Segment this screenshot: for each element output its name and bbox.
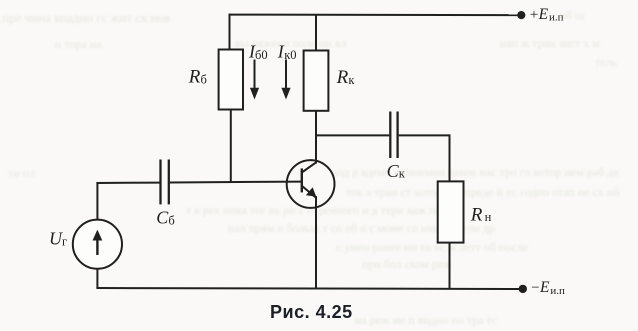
wire collector lead from Rк down xyxy=(315,111,317,164)
wire bottom rail xyxy=(96,288,523,289)
svg-text:+: + xyxy=(530,7,538,23)
wire collector to Ск xyxy=(315,134,389,136)
svg-text:R: R xyxy=(470,204,483,225)
node dot +E xyxy=(517,11,525,19)
wire Rн bottom lead xyxy=(449,243,451,289)
resistor Rк xyxy=(304,51,329,111)
capacitor Cб plates xyxy=(159,160,161,205)
transistor VT circle xyxy=(287,160,335,208)
capacitor Ск plates xyxy=(389,112,391,159)
svg-text:б: б xyxy=(201,73,207,87)
faint page bleed-through text (decorative) xyxy=(2,10,170,26)
svg-text:б: б xyxy=(168,213,174,227)
resistor Rн xyxy=(438,181,464,242)
svg-text:и.п: и.п xyxy=(549,12,564,24)
source Uг circle xyxy=(73,220,122,269)
wire emitter down to rail xyxy=(315,196,317,289)
wire R_k top lead xyxy=(315,15,317,51)
arrowhead Iб0 xyxy=(250,88,259,100)
source arrow xyxy=(93,230,103,241)
svg-text:б0: б0 xyxy=(255,48,268,62)
wire source top lead xyxy=(96,182,98,219)
transistor emitter diagonal xyxy=(302,186,316,198)
wire source bottom lead xyxy=(96,269,98,289)
svg-text:C: C xyxy=(156,207,169,227)
svg-text:и.п: и.п xyxy=(550,285,565,297)
svg-text:C: C xyxy=(387,161,400,181)
svg-text:к0: к0 xyxy=(284,48,296,62)
svg-text:−: − xyxy=(531,280,539,296)
svg-text:г: г xyxy=(62,235,67,249)
svg-text:E: E xyxy=(539,279,550,296)
node dot -E xyxy=(519,285,527,293)
wire top rail xyxy=(229,14,522,17)
transistor base bar xyxy=(301,168,303,192)
wire R_b top lead xyxy=(229,14,231,50)
svg-text:н: н xyxy=(485,210,492,224)
wire Ск to corner xyxy=(399,134,450,136)
wire base wire Cб to transistor xyxy=(170,181,302,184)
transistor collector diagonal xyxy=(302,162,316,172)
svg-text:U: U xyxy=(49,228,63,248)
svg-text:E: E xyxy=(538,6,549,23)
svg-text:к: к xyxy=(399,167,406,181)
current arrow Iб0 xyxy=(254,60,256,91)
caption xyxy=(270,302,353,323)
svg-text:R: R xyxy=(188,67,201,88)
wire corner down to Rн xyxy=(449,134,451,181)
svg-text:к: к xyxy=(348,73,355,87)
arrowhead Iк0 xyxy=(281,88,290,100)
wire source to Cб xyxy=(96,182,159,184)
wire R_b bottom lead to base node xyxy=(230,110,232,184)
svg-text:R: R xyxy=(336,67,349,88)
current arrow Iк0 xyxy=(285,60,287,91)
transistor emitter arrowhead xyxy=(306,187,316,196)
resistor Rб xyxy=(219,50,243,110)
